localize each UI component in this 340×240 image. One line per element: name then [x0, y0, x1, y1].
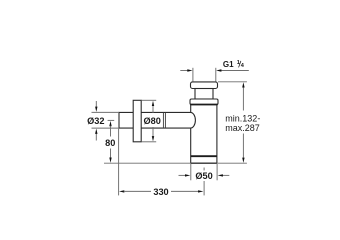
svg-text:Ø50: Ø50: [195, 171, 212, 181]
dia 80 dimension vertical line: [152, 106, 154, 137]
arrow up at flange top: [152, 101, 154, 106]
arrow right-pointing at G thread left: [187, 69, 192, 71]
thread neck: [195, 89, 213, 100]
inlet pipe dome into body: [189, 112, 195, 128]
330 dimension line with arrows: [119, 190, 124, 192]
bottom reference extension line: [104, 162, 247, 164]
wall flange escutcheon: [133, 100, 141, 142]
svg-text:G1: G1: [223, 60, 234, 69]
arrow down at min max bottom: [242, 158, 244, 163]
ring bottom shadow line: [190, 103, 217, 105]
pipe joint seam lines: [162, 112, 164, 128]
dia 32 extension lines: [92, 112, 120, 128]
dia 50 extension lines: [191, 164, 217, 180]
80 dimension upper arrow pointing up: [109, 121, 111, 126]
svg-text:max.287: max.287: [225, 123, 260, 133]
trap body cylinder: [191, 105, 217, 163]
svg-text:Ø32: Ø32: [87, 116, 104, 126]
arrow left-pointing at G thread right: [216, 69, 221, 71]
centerline tick above dia50 text: [203, 168, 205, 171]
dia 32 lower arrow pointing up: [95, 134, 97, 141]
80 dimension top tick at pipe centerline: [108, 119, 115, 121]
dia 32 upper arrow pointing down: [95, 101, 97, 107]
dimension G1 1/4 line left: [180, 70, 188, 72]
centerline tick below dia50 text to 330 line: [203, 181, 205, 195]
second ring: [190, 99, 218, 105]
trap rim bottom edge: [191, 162, 217, 164]
dia 50 left arrow pointing right: [179, 174, 186, 176]
label G1 1/4: [223, 60, 245, 69]
min max dimension top extension: [218, 81, 247, 83]
svg-text:80: 80: [105, 138, 115, 148]
80 dimension lower arrow pointing down: [110, 149, 112, 158]
arrow down at flange bottom: [152, 136, 154, 141]
trap body cap shadow line: [191, 155, 217, 157]
svg-text:330: 330: [153, 187, 168, 197]
min max dimension vertical line: [242, 87, 244, 159]
330 dimension left extension line: [118, 129, 120, 196]
label min.132- max.287: [225, 113, 260, 133]
dia 50 right arrow pointing left: [222, 174, 229, 176]
arrow up at min max top: [242, 82, 244, 87]
dia 80 extension lines: [141, 100, 156, 142]
dimension G1 1/4 line right: [221, 70, 249, 72]
svg-text:min.132-: min.132-: [225, 113, 260, 123]
dimension G1 1/4 extension lines: [193, 68, 216, 82]
horizontal wall pipe: [119, 112, 191, 128]
top nut flange: [191, 82, 218, 89]
svg-text:Ø80: Ø80: [144, 116, 161, 126]
